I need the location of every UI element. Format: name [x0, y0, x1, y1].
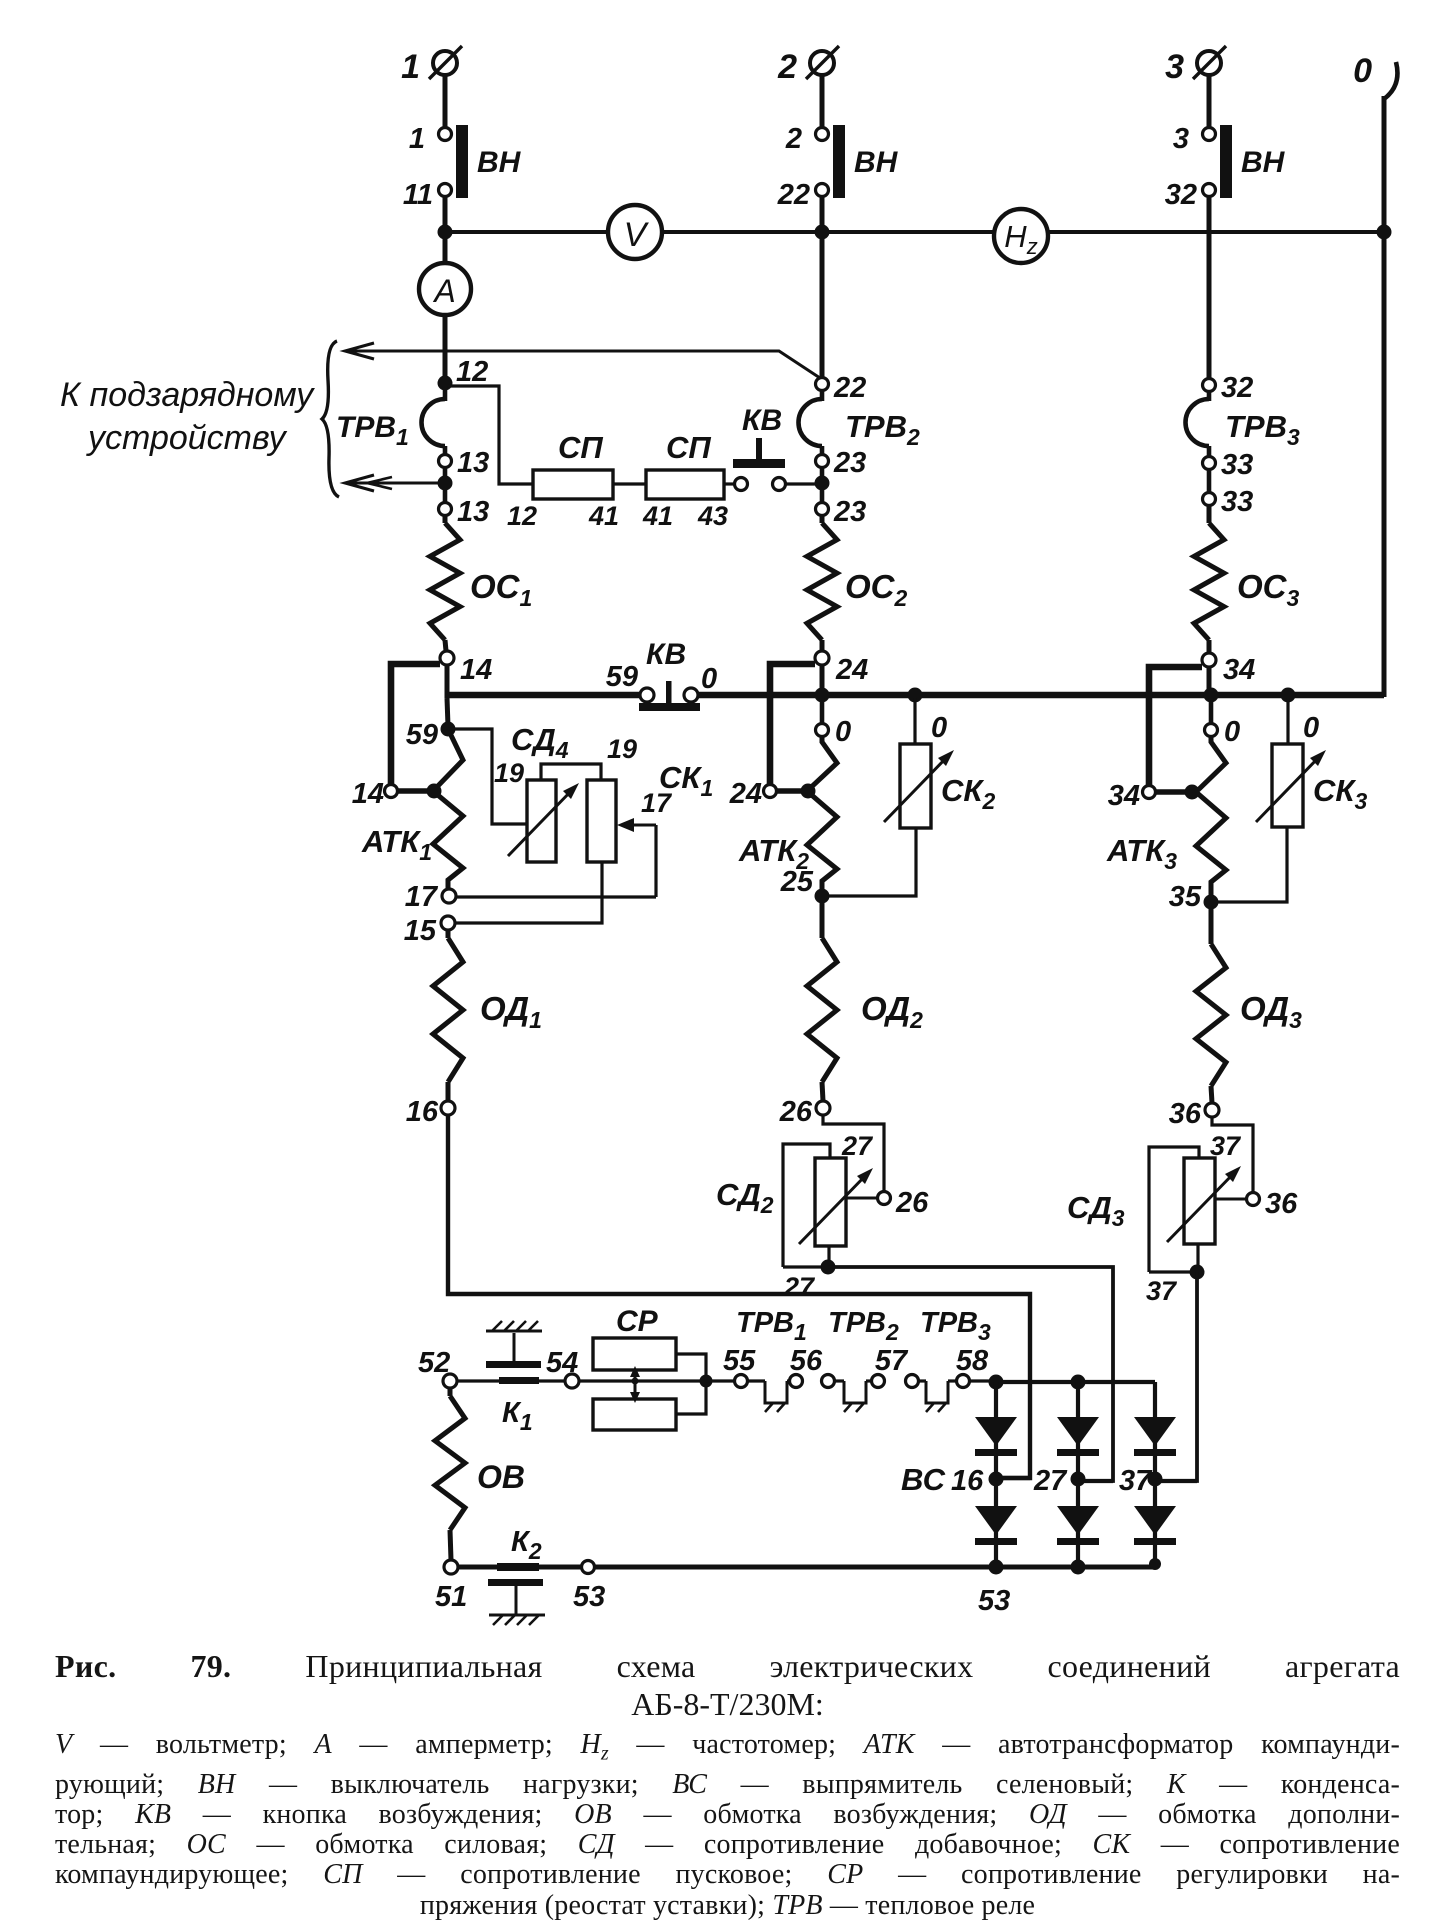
wire 37 to rectifier: [1162, 1272, 1197, 1481]
diode VS col1 lower: [975, 1506, 1017, 1535]
autotransformer ATK1: [433, 729, 463, 889]
winding OD3 (additional winding ph.3): [1196, 944, 1226, 1086]
svg-text:23: 23: [833, 496, 866, 528]
node 57 left: [872, 1375, 885, 1388]
terminal 1 (phase 1 input): [429, 46, 462, 79]
wire 16 tap to col1: [996, 1476, 1030, 1480]
svg-text:ОС1: ОС1: [470, 568, 532, 611]
node 59 bus contact: [640, 688, 654, 702]
node 52: [443, 1374, 457, 1388]
brace: [322, 341, 339, 497]
svg-text:19: 19: [494, 758, 524, 788]
wire SD3 bottom: [1149, 1270, 1194, 1273]
svg-text:25: 25: [780, 866, 814, 898]
svg-text:КВ: КВ: [646, 638, 686, 671]
svg-text:КВ: КВ: [742, 404, 782, 437]
rectifier col1 wire: [994, 1382, 998, 1568]
svg-text:15: 15: [404, 915, 437, 947]
junction bus phase3: [1204, 688, 1219, 703]
svg-text:53: 53: [573, 1581, 605, 1613]
svg-text:34: 34: [1108, 780, 1140, 812]
thermal contact TRV3: [926, 1381, 948, 1403]
wire 37 tap to col3: [1155, 1479, 1197, 1483]
push button KB bus bridge: [639, 703, 700, 711]
wire 24 to ATK2 tap: [777, 788, 804, 793]
svg-text:51: 51: [435, 1581, 467, 1613]
wire 14 elbow left: [391, 664, 440, 784]
SD3 top bracket: [1149, 1147, 1199, 1272]
wire 12 to SP: [448, 386, 532, 484]
svg-text:ОД1: ОД1: [480, 990, 542, 1033]
winding OC3 (power winding ph.3): [1194, 523, 1224, 640]
rectifier col3 wire: [1153, 1382, 1157, 1568]
push button KB bus stem: [666, 681, 672, 703]
junction SR output: [700, 1375, 713, 1388]
push button KB upper stem: [756, 438, 762, 459]
wire 33-33: [1207, 470, 1212, 493]
wire bus to SK3: [1286, 698, 1289, 745]
svg-text:43: 43: [697, 501, 728, 531]
junction neutral/meter line: [1377, 225, 1392, 240]
svg-text:СК3: СК3: [1313, 773, 1367, 814]
svg-text:27: 27: [1033, 1465, 1068, 1497]
SK1 wiper arrow: [617, 818, 656, 897]
resistor SP first: [533, 470, 613, 499]
SK3 wiper arrow: [1256, 750, 1326, 822]
svg-text:СД2: СД2: [716, 1177, 774, 1218]
svg-text:14: 14: [460, 654, 492, 686]
svg-text:СД4: СД4: [511, 722, 569, 763]
SD2 top bracket: [783, 1144, 830, 1267]
node 36 right: [1247, 1193, 1260, 1206]
wire 12-13: [443, 446, 448, 456]
svg-text:12: 12: [456, 356, 488, 388]
junction col1 mid: [989, 1472, 1004, 1487]
node 22 terminal: [816, 378, 829, 391]
ground K2: [489, 1615, 545, 1625]
svg-text:57: 57: [875, 1345, 909, 1377]
wire terminal 1 to contact: [443, 75, 448, 127]
wire OD3 to 36: [1211, 1086, 1212, 1103]
wire arrow to recharger (from 13): [345, 482, 441, 485]
svg-text:0: 0: [931, 712, 947, 744]
svg-text:26: 26: [779, 1096, 813, 1128]
svg-text:ВН: ВН: [477, 146, 522, 179]
wire KB to node 23: [786, 482, 818, 485]
junction 35: [1204, 895, 1219, 910]
thermal relay TRV1 heater bump: [421, 399, 445, 446]
wire 56 to TRV2 contact: [835, 1379, 844, 1382]
node 14: [440, 651, 454, 665]
junction 25: [815, 889, 830, 904]
svg-text:12: 12: [507, 501, 537, 531]
wire OD2 to 26: [822, 1082, 823, 1101]
diode VS col3 lower: [1134, 1506, 1176, 1535]
node 0 bus contact: [684, 688, 698, 702]
wire 59 to SD4: [448, 729, 526, 824]
wire 15 to SK1 bottom: [455, 862, 602, 923]
svg-text:А: А: [432, 273, 455, 309]
wire 34 to ATK3 tap: [1156, 789, 1188, 794]
node 12 junction: [438, 376, 453, 391]
junction bus SK3: [1281, 688, 1296, 703]
wire 13-13: [443, 468, 448, 503]
resistor SR lower: [593, 1399, 676, 1430]
wire 24 down to bus: [820, 665, 825, 698]
node 54: [565, 1374, 579, 1388]
svg-text:V: V: [624, 216, 650, 254]
diode VS col2 upper: [1057, 1417, 1099, 1446]
svg-text:35: 35: [1169, 881, 1202, 913]
wire OD1 to 16: [446, 1082, 451, 1101]
wire 33 to OC3: [1207, 506, 1212, 523]
wire 32-33: [1207, 446, 1212, 457]
junction phase1/meter line: [438, 225, 453, 240]
svg-text:37: 37: [1146, 1276, 1178, 1306]
node KB contact right: [773, 478, 786, 491]
voltmeter V: [608, 205, 662, 259]
svg-text:58: 58: [956, 1345, 989, 1377]
node 55: [735, 1375, 748, 1388]
ammeter A: [419, 263, 471, 315]
wire SR upper right: [676, 1354, 706, 1378]
wire TRV3 to 58: [948, 1379, 957, 1382]
node 26: [816, 1101, 830, 1115]
svg-text:ОВ: ОВ: [477, 1459, 525, 1495]
svg-text:ОС2: ОС2: [845, 568, 908, 611]
wire ammeter to node 12: [443, 315, 448, 383]
wire phase3 vertical upper: [1207, 196, 1212, 380]
rectifier col2 wire: [1076, 1382, 1080, 1568]
svg-text:17: 17: [641, 788, 673, 818]
SD2 bottom stub: [827, 1246, 830, 1267]
node 32 (switch lower contact): [1203, 184, 1216, 197]
node 0 ATK2: [816, 724, 829, 737]
winding OB (excitation winding): [435, 1396, 465, 1530]
svg-text:ТРВ1: ТРВ1: [336, 411, 409, 450]
wire 52 to OB: [448, 1388, 453, 1396]
svg-text:23: 23: [833, 447, 866, 479]
wire 22 to TRV2 bump: [820, 390, 825, 401]
svg-text:СК2: СК2: [941, 773, 995, 814]
wire 26 to SD2 wiper: [823, 1115, 884, 1192]
resistor SR upper (setting rheostat): [593, 1338, 676, 1370]
wire SK3 bottom to 35: [1218, 827, 1287, 902]
node 56 right: [822, 1375, 835, 1388]
arrowhead lower: [345, 475, 374, 491]
node 23 upper: [816, 455, 829, 468]
wire 32 to TRV3 bump: [1207, 391, 1212, 401]
wire OC1 to 14: [445, 640, 446, 651]
svg-text:16: 16: [951, 1465, 984, 1497]
diode VS col3 upper: [1134, 1417, 1176, 1446]
switch BH phase 1 blade: [456, 125, 468, 198]
wire 54 to SR wiper: [579, 1379, 700, 1382]
wire 23 to OC2: [820, 515, 825, 523]
svg-text:АТК3: АТК3: [1106, 833, 1177, 874]
bus wire left section: [447, 692, 640, 699]
svg-text:ОД2: ОД2: [861, 990, 923, 1033]
wire bus to SK2: [913, 698, 916, 745]
wire 13 to OC1: [443, 515, 448, 523]
node 57 right: [906, 1375, 919, 1388]
wire 34 down to bus: [1207, 667, 1212, 698]
capacitor K1 upper plate: [486, 1361, 541, 1368]
wire 36 to SD3 wiper: [1212, 1117, 1253, 1192]
wire bus to 0 node ph3: [1209, 698, 1214, 724]
bus wire right section: [698, 692, 1384, 699]
svg-text:55: 55: [723, 1345, 756, 1377]
svg-text:36: 36: [1265, 1188, 1298, 1220]
ground K1: [486, 1321, 542, 1331]
node 26 right: [878, 1192, 891, 1205]
svg-text:33: 33: [1221, 449, 1253, 481]
svg-text:0: 0: [1224, 716, 1240, 748]
wire terminal 3 to contact: [1207, 75, 1212, 127]
wire SR lower right: [676, 1384, 706, 1414]
terminal 2 (phase 2 input): [806, 46, 839, 79]
svg-text:СР: СР: [616, 1305, 659, 1338]
SD3 wiper arrow: [1167, 1166, 1247, 1242]
resistor SD4 (variable): [527, 780, 556, 862]
junction ATK1 tap: [427, 784, 442, 799]
svg-text:34: 34: [1223, 654, 1255, 686]
wire terminal 2 to contact: [820, 75, 825, 127]
svg-text:33: 33: [1221, 486, 1253, 518]
junction bus SK2: [908, 688, 923, 703]
wire neutral hook: [1384, 62, 1398, 99]
svg-text:3: 3: [1165, 48, 1184, 86]
autotransformer ATK3: [1196, 736, 1226, 896]
node 3 (switch upper contact): [1203, 128, 1216, 141]
thermal relay TRV3 heater bump: [1186, 399, 1210, 446]
wire K1 to 54: [539, 1379, 565, 1382]
node 0 ATK3: [1205, 724, 1218, 737]
SD3 bottom stub: [1196, 1244, 1199, 1272]
wire TRV2 to 57: [866, 1379, 872, 1382]
wire SK2 bottom to 25: [829, 828, 916, 896]
wire 16 to rectifier: [448, 1115, 1030, 1478]
wire SR to 55: [706, 1379, 734, 1382]
node 22 (switch lower contact): [816, 184, 829, 197]
node 15 (OD1 start): [441, 916, 455, 930]
wire between SP: [613, 482, 645, 485]
capacitor K1 lower plate: [499, 1377, 539, 1384]
junction 59: [441, 722, 456, 737]
junction phase2/meter line: [815, 225, 830, 240]
node 51: [444, 1560, 458, 1574]
node 34: [1202, 653, 1216, 667]
svg-text:13: 13: [457, 447, 489, 479]
svg-text:22: 22: [833, 372, 866, 404]
wire bus down to 59: [447, 698, 448, 726]
wire 15 to OD1: [446, 930, 451, 938]
wire 55 to TRV1 contact: [748, 1379, 765, 1382]
resistor SK1 (compounding): [587, 780, 616, 862]
svg-text:24: 24: [729, 778, 762, 810]
wire 27 tap to col2: [1078, 1479, 1113, 1483]
svg-text:ТРВ2: ТРВ2: [828, 1307, 899, 1345]
node 14 left terminal: [385, 785, 398, 798]
svg-text:1: 1: [401, 48, 420, 86]
resistor SK2 (compounding): [900, 744, 931, 828]
svg-text:27: 27: [783, 1272, 816, 1302]
svg-text:2: 2: [785, 123, 802, 155]
SD4 wiper arrow: [508, 783, 579, 856]
wire 24 elbow left: [770, 664, 815, 784]
thermal contact TRV1: [765, 1381, 787, 1403]
node 13 lower: [439, 503, 452, 516]
svg-text:ТРВ3: ТРВ3: [920, 1307, 991, 1345]
svg-text:59: 59: [406, 719, 438, 751]
arrowhead upper: [345, 343, 374, 359]
node 36: [1205, 1103, 1219, 1117]
wire 22-23: [820, 446, 825, 455]
junction rectifier col1 top: [989, 1375, 1004, 1390]
wire neutral vertical (0 line): [1382, 96, 1387, 697]
svg-text:ТРВ3: ТРВ3: [1225, 409, 1300, 450]
junction ATK3 tap: [1185, 785, 1200, 800]
node 24 left terminal: [764, 785, 777, 798]
svg-text:0: 0: [1353, 52, 1372, 90]
wire 34 elbow left: [1149, 667, 1202, 785]
wire bus to 0 node ph2: [820, 698, 825, 724]
capacitor K2 lower plate: [488, 1579, 543, 1586]
svg-text:3: 3: [1173, 123, 1189, 155]
svg-text:ТРВ1: ТРВ1: [736, 1307, 807, 1345]
wire 12 to TRV1 bump: [443, 386, 448, 401]
thermal relay TRV2 heater bump: [798, 399, 822, 446]
junction col2 bottom: [1071, 1560, 1086, 1575]
wire 14 to ATK1 tap: [398, 788, 430, 793]
wire 35 to OD3: [1209, 908, 1214, 944]
node KB contact left: [735, 478, 748, 491]
wire arrow to recharger (from 22): [345, 351, 820, 378]
node 34 left terminal: [1143, 786, 1156, 799]
svg-text:0: 0: [1303, 712, 1319, 744]
svg-text:СД3: СД3: [1067, 1190, 1125, 1231]
node 13 upper: [439, 455, 452, 468]
junction col1 bottom: [989, 1560, 1004, 1575]
svg-text:13: 13: [457, 496, 489, 528]
junction col2 mid: [1071, 1472, 1086, 1487]
winding OD2 (additional winding ph.2): [807, 938, 837, 1082]
SK2 wiper arrow: [884, 750, 954, 822]
svg-text:К2: К2: [511, 1526, 542, 1564]
svg-text:К1: К1: [502, 1397, 533, 1435]
svg-text:2: 2: [777, 48, 797, 86]
node 53: [582, 1561, 595, 1574]
svg-text:56: 56: [790, 1345, 823, 1377]
node 24: [815, 651, 829, 665]
junction ATK2 tap: [801, 784, 816, 799]
bottom bus wire: [458, 1565, 1155, 1570]
svg-text:ТРВ2: ТРВ2: [845, 409, 920, 450]
capacitor K1 stem: [513, 1333, 516, 1361]
wire SD2 bottom: [783, 1265, 825, 1268]
svg-text:26: 26: [895, 1187, 929, 1219]
svg-text:24: 24: [835, 654, 868, 686]
arrowhead lower second chevron: [367, 477, 392, 489]
svg-text:53: 53: [978, 1585, 1010, 1617]
svg-text:ВН: ВН: [854, 146, 899, 179]
svg-text:ВН: ВН: [1241, 146, 1286, 179]
diode VS col1 upper: [975, 1417, 1017, 1446]
wire TRV1 to 56: [787, 1379, 790, 1382]
node 58: [957, 1375, 970, 1388]
autotransformer ATK2: [807, 736, 837, 890]
junction 13 (arrow tap): [438, 476, 453, 491]
junction col3 bottom: [1149, 1558, 1161, 1570]
svg-text:ОД3: ОД3: [1240, 990, 1302, 1033]
svg-text:К подзарядному: К подзарядному: [60, 376, 315, 414]
switch BH phase 3 blade: [1220, 125, 1232, 198]
SD2 wiper arrow: [799, 1168, 878, 1244]
wire 19 bracket: [541, 764, 601, 779]
svg-text:36: 36: [1169, 1098, 1202, 1130]
node 2 (switch upper contact): [816, 128, 829, 141]
capacitor K2 stem: [515, 1586, 518, 1615]
svg-text:22: 22: [777, 179, 810, 211]
frequency meter Hz: [994, 209, 1048, 263]
svg-text:0: 0: [835, 716, 851, 748]
rectifier top wire: [996, 1380, 1155, 1384]
capacitor K2 upper plate: [497, 1563, 539, 1571]
svg-text:41: 41: [588, 501, 619, 531]
svg-text:19: 19: [607, 734, 637, 764]
wire 23-23: [820, 468, 825, 503]
switch BH phase 2 blade: [833, 125, 845, 198]
wire phase1 upper vertical: [443, 196, 448, 264]
terminal 3 (phase 3 input): [1193, 46, 1226, 79]
svg-text:ВС: ВС: [901, 1462, 946, 1497]
SR wiper double arrow: [630, 1366, 640, 1403]
junction 23 (KB tap): [815, 476, 830, 491]
winding OC2 (power winding ph.2): [807, 523, 837, 640]
svg-text:59: 59: [606, 661, 638, 693]
wire SP to KB contact: [724, 482, 735, 485]
svg-text:ОС3: ОС3: [1237, 568, 1300, 611]
wire OC2 to 24: [820, 640, 825, 651]
resistor SD3 (variable): [1184, 1158, 1215, 1244]
node 56 left: [790, 1375, 803, 1388]
svg-text:1: 1: [409, 123, 425, 155]
push button KB upper bridge: [733, 459, 785, 468]
svg-text:41: 41: [642, 501, 673, 531]
svg-text:АТК1: АТК1: [361, 824, 432, 865]
wire 52 to K1: [457, 1379, 499, 1382]
junction 27: [821, 1260, 836, 1275]
node 1 (switch upper contact): [439, 128, 452, 141]
svg-text:32: 32: [1221, 372, 1253, 404]
wire OC3 to 34: [1207, 640, 1212, 653]
node 16: [441, 1101, 455, 1115]
svg-text:11: 11: [403, 179, 433, 211]
junction col3 mid: [1148, 1472, 1163, 1487]
svg-text:17: 17: [405, 881, 439, 913]
wire 17 to SK1 wiper: [456, 895, 656, 898]
junction 37: [1190, 1265, 1205, 1280]
svg-text:СП: СП: [558, 430, 603, 465]
thermal contact TRV2: [844, 1381, 866, 1403]
junction bus phase2: [815, 688, 830, 703]
svg-text:0: 0: [701, 663, 717, 695]
svg-text:16: 16: [406, 1096, 439, 1128]
resistor SP second: [646, 470, 724, 499]
diode VS col2 lower: [1057, 1506, 1099, 1535]
winding OC1 (power winding ph.1): [430, 523, 460, 640]
svg-text:14: 14: [352, 778, 384, 810]
